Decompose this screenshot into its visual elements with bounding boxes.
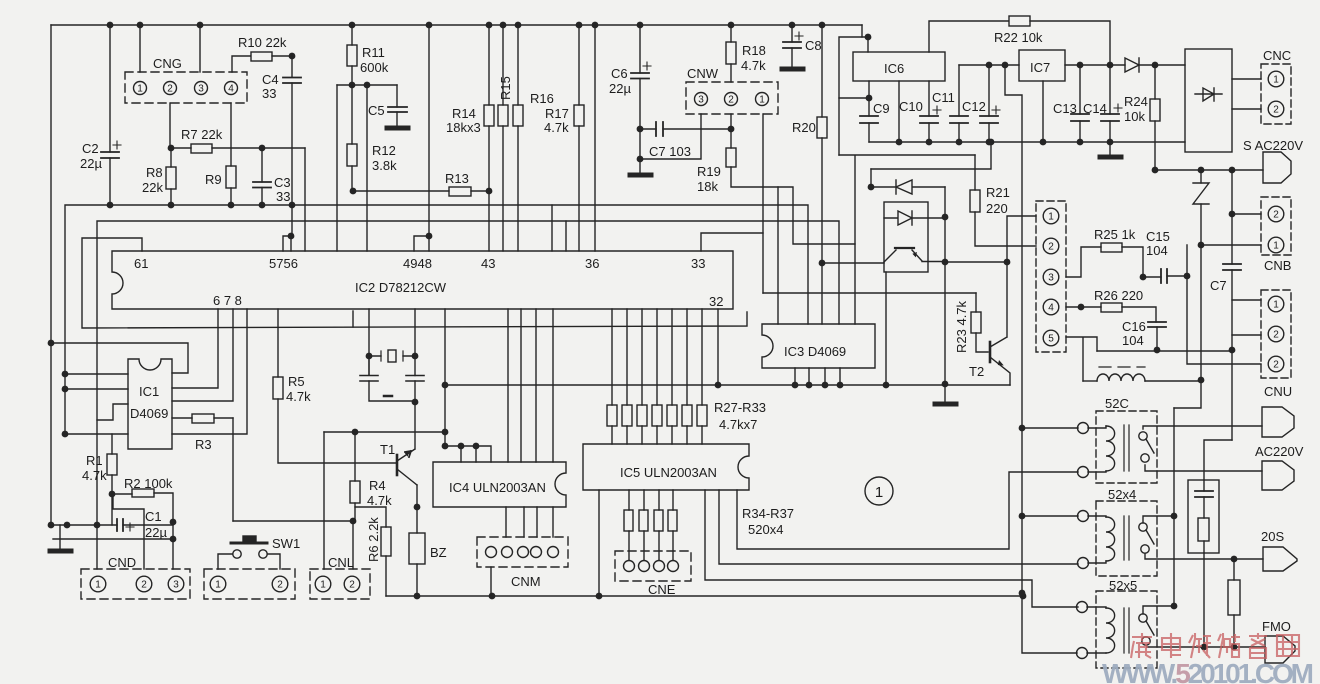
wire IC2 pins down to IC4 top row bbox=[444, 309, 446, 446]
resistor R18 bbox=[726, 25, 736, 82]
wire east control bus bbox=[445, 384, 1010, 386]
svg-text:SW1: SW1 bbox=[272, 536, 300, 551]
wire IC2 pin6 to IC1 bbox=[172, 309, 218, 388]
resistor R15 bbox=[498, 25, 508, 251]
svg-text:CNG: CNG bbox=[153, 56, 182, 71]
svg-text:1: 1 bbox=[215, 580, 221, 591]
relay 52x4 terminals bbox=[1078, 511, 1107, 569]
wire C4 column to pins 57 56 bbox=[291, 205, 293, 236]
resistor R16 bbox=[513, 25, 523, 251]
circled digit texts bbox=[95, 75, 1279, 591]
capacitor C5 bbox=[388, 85, 407, 126]
capacitor C2 bbox=[101, 25, 121, 205]
resistor R6 bbox=[355, 507, 391, 596]
svg-text:52C: 52C bbox=[1105, 396, 1129, 411]
wire IC2 pins 49 48 bbox=[414, 236, 429, 251]
connector below SW1 bbox=[204, 569, 295, 599]
wire relay contact column bbox=[1173, 408, 1175, 606]
wire bottom AC bus bbox=[1147, 646, 1265, 648]
svg-text:R17: R17 bbox=[545, 106, 569, 121]
wire 52x4 contact to column bbox=[1143, 516, 1174, 523]
connector FMO lug bbox=[1265, 636, 1295, 663]
wire IC2 pin61 wrap bbox=[82, 238, 747, 328]
svg-text:2: 2 bbox=[1273, 210, 1279, 221]
wire left border column bbox=[50, 25, 52, 525]
svg-text:C2: C2 bbox=[82, 141, 99, 156]
svg-text:R3: R3 bbox=[195, 437, 212, 452]
wire IC7 output line bbox=[1065, 64, 1125, 66]
wire module emitter line to T2 collector bbox=[945, 261, 1007, 263]
resistor R22 bbox=[929, 16, 1110, 65]
wire CNG pin4 down to R9 bbox=[230, 103, 232, 166]
resistor R26 bbox=[1066, 303, 1156, 322]
svg-text:1: 1 bbox=[875, 484, 883, 501]
svg-text:T2: T2 bbox=[969, 364, 984, 379]
svg-text:20S: 20S bbox=[1261, 529, 1284, 544]
wire left border to IC1 top right bbox=[51, 343, 188, 373]
wire CND pin2 line bbox=[53, 538, 173, 540]
resistor R23 bbox=[971, 293, 988, 352]
capacitor C1 bbox=[48, 519, 177, 543]
resistor R3 bbox=[172, 414, 233, 423]
wire bottom ground bus bbox=[386, 595, 1023, 597]
relay 52x5 terminals bbox=[1077, 602, 1107, 659]
svg-text:AC220V: AC220V bbox=[1255, 444, 1304, 459]
wire IC7 ground pin bbox=[1042, 81, 1044, 142]
svg-text:R14: R14 bbox=[452, 106, 476, 121]
svg-text:R26 220: R26 220 bbox=[1094, 288, 1143, 303]
svg-text:3: 3 bbox=[698, 95, 704, 106]
wire IC2 pin32 down bbox=[717, 309, 719, 385]
svg-text:4.7k: 4.7k bbox=[741, 58, 766, 73]
wire IC4 bottom pins to CNM bbox=[506, 507, 553, 537]
svg-text:3: 3 bbox=[198, 84, 204, 95]
resistor R10 bbox=[232, 52, 292, 72]
wire feed to 52C coil bbox=[1022, 427, 1078, 429]
rotated labels R15 R23 R6 bbox=[366, 76, 969, 562]
capacitor C16 bbox=[1148, 322, 1166, 353]
IC6 body bbox=[853, 52, 945, 81]
svg-text:2: 2 bbox=[1273, 330, 1279, 341]
wire zener to CNB pin1 bbox=[1201, 244, 1261, 246]
svg-text:22k: 22k bbox=[142, 180, 163, 195]
capacitor C11 bbox=[933, 65, 968, 142]
wire CNM pin1 down to ground bus bbox=[490, 567, 492, 596]
svg-text:3.8k: 3.8k bbox=[372, 158, 397, 173]
connector CNL bbox=[310, 569, 370, 599]
resistor R11 bbox=[347, 25, 357, 85]
buzzer BZ bbox=[409, 507, 425, 596]
svg-text:R21: R21 bbox=[986, 185, 1010, 200]
wire CNG pin3 to top bus bbox=[199, 25, 201, 72]
svg-text:4: 4 bbox=[1048, 303, 1054, 314]
wire header pin1 to T2 collector column bbox=[1007, 216, 1036, 262]
wire rectifier to CNC pin1 bbox=[1232, 78, 1261, 80]
wire caps ground rail bbox=[869, 141, 1185, 143]
wire IC3 extra top pin bbox=[777, 187, 779, 324]
resistor R25 bbox=[1066, 243, 1143, 277]
circled reference 1 bbox=[865, 477, 893, 505]
wire column x429 to top bus bbox=[428, 25, 430, 236]
svg-text:IC4 ULN2003AN: IC4 ULN2003AN bbox=[449, 480, 546, 495]
svg-text:18k: 18k bbox=[697, 179, 718, 194]
connector CNG bbox=[125, 72, 247, 103]
wire IC2 pin x552 to bus A bbox=[551, 205, 553, 251]
svg-text:C1: C1 bbox=[145, 509, 162, 524]
svg-text:6 7 8: 6 7 8 bbox=[213, 293, 242, 308]
connector CNE bbox=[615, 551, 691, 581]
svg-text:C8: C8 bbox=[805, 38, 822, 53]
svg-text:C13: C13 bbox=[1053, 101, 1077, 116]
wire 52C top contact to AC lug A bbox=[1143, 426, 1262, 429]
wire R11 bottom node bbox=[337, 84, 397, 86]
wire bus A ground rail bbox=[65, 205, 808, 434]
svg-text:36: 36 bbox=[585, 256, 599, 271]
wire R3 corner down to switch line bbox=[232, 418, 234, 521]
svg-text:CNW: CNW bbox=[687, 66, 719, 81]
inductor L1 bbox=[1083, 367, 1201, 381]
ground below C6 bbox=[630, 173, 651, 178]
svg-text:4: 4 bbox=[228, 84, 234, 95]
svg-text:520x4: 520x4 bbox=[748, 522, 783, 537]
svg-text:5: 5 bbox=[1048, 334, 1054, 345]
svg-text:4.7kx7: 4.7kx7 bbox=[719, 417, 757, 432]
wire IC2 pin33 route to R23 line bbox=[701, 233, 976, 293]
ground below C5 bbox=[387, 126, 408, 131]
svg-text:C5: C5 bbox=[368, 103, 385, 118]
wire CNW pin1 down to R23 line bbox=[762, 114, 764, 293]
resistor R14 bbox=[484, 25, 494, 251]
svg-text:IC3 D4069: IC3 D4069 bbox=[784, 344, 846, 359]
svg-text:1: 1 bbox=[759, 95, 765, 106]
svg-text:220: 220 bbox=[986, 201, 1008, 216]
svg-text:4.7k: 4.7k bbox=[544, 120, 569, 135]
connector CNU bbox=[1261, 290, 1291, 378]
wire module right column bbox=[944, 187, 946, 384]
crystal X1 with caps bbox=[360, 309, 424, 405]
relay 52C terminals bbox=[1078, 423, 1107, 478]
transistor in module bbox=[884, 248, 945, 262]
svg-text:C7: C7 bbox=[1210, 278, 1227, 293]
svg-text:C7 103: C7 103 bbox=[649, 144, 691, 159]
wire AC line to CNB pin2 bbox=[1232, 170, 1261, 214]
svg-text:1: 1 bbox=[1273, 241, 1279, 252]
wire pin4 net line bbox=[1097, 350, 1232, 352]
svg-text:33: 33 bbox=[691, 256, 705, 271]
svg-text:104: 104 bbox=[1122, 333, 1144, 348]
svg-text:R5: R5 bbox=[288, 374, 305, 389]
transistor T1 bbox=[397, 402, 420, 510]
wire IC1 left pin step bbox=[97, 404, 128, 420]
wire CNU pin2 middle branch bbox=[1232, 334, 1261, 336]
connector CND bbox=[81, 569, 190, 599]
svg-text:R4: R4 bbox=[369, 478, 386, 493]
wire IC5 stair to relay1 bbox=[737, 472, 1078, 549]
resistors R34-R37 bbox=[624, 490, 677, 560]
transistor T2 bbox=[990, 259, 1010, 385]
capacitor C15 bbox=[1140, 269, 1191, 283]
capacitor C12 bbox=[980, 65, 1000, 142]
wire switch line bbox=[233, 520, 353, 522]
svg-text:C6: C6 bbox=[611, 66, 628, 81]
svg-text:22µ: 22µ bbox=[145, 525, 167, 540]
wire IC2 pin7 to IC1 bbox=[172, 309, 233, 401]
svg-text:R10 22k: R10 22k bbox=[238, 35, 287, 50]
resistor R13 bbox=[350, 187, 493, 196]
resistor R4 bbox=[350, 432, 360, 521]
zener diode D1 in module bbox=[871, 180, 945, 194]
resistor R5 bbox=[273, 309, 397, 463]
resistor R9 bbox=[226, 166, 236, 205]
wire IC2 pin8 down bbox=[172, 309, 247, 434]
svg-text:1: 1 bbox=[1048, 212, 1054, 223]
svg-text:R24: R24 bbox=[1124, 94, 1148, 109]
svg-text:IC6: IC6 bbox=[884, 61, 904, 76]
connector AC220V lug A bbox=[1262, 407, 1294, 437]
capacitor C14 bbox=[1101, 65, 1122, 142]
wire header pin5 down bbox=[1066, 337, 1097, 381]
svg-text:600k: 600k bbox=[360, 60, 389, 75]
IC5 ULN2003AN body bbox=[583, 444, 749, 490]
svg-text:R34-R37: R34-R37 bbox=[742, 506, 794, 521]
capacitor C7b bbox=[1223, 214, 1261, 440]
svg-text:R9: R9 bbox=[205, 172, 222, 187]
wire IC3 bottom pins bbox=[795, 368, 840, 385]
svg-text:5756: 5756 bbox=[269, 256, 298, 271]
wire 52C bottom contact to AC lug B bbox=[1145, 465, 1262, 471]
svg-text:33: 33 bbox=[276, 189, 290, 204]
resistor R divider bbox=[1228, 559, 1240, 647]
resistor R8 bbox=[166, 148, 176, 205]
svg-text:C9: C9 bbox=[873, 101, 890, 116]
svg-text:4948: 4948 bbox=[403, 256, 432, 271]
svg-text:61: 61 bbox=[134, 256, 148, 271]
wire top bus right corner down bbox=[861, 25, 863, 37]
wire feed to 52x4 coil bbox=[1022, 515, 1078, 517]
diode D2 in module bbox=[884, 211, 945, 225]
svg-text:S AC220V: S AC220V bbox=[1243, 138, 1303, 153]
svg-text:R19: R19 bbox=[697, 164, 721, 179]
node dots on AC line bbox=[1198, 167, 1236, 174]
resistor R7 bbox=[168, 144, 305, 153]
svg-text:R8: R8 bbox=[146, 165, 163, 180]
svg-text:T1: T1 bbox=[380, 442, 395, 457]
wire IC6 top pin bbox=[867, 37, 869, 52]
svg-text:CNM: CNM bbox=[511, 574, 541, 589]
svg-text:C10: C10 bbox=[899, 99, 923, 114]
svg-text:IC2 D78212CW: IC2 D78212CW bbox=[355, 280, 447, 295]
svg-text:3: 3 bbox=[173, 580, 179, 591]
wire CNL pin1 long column bbox=[323, 432, 325, 569]
wire CNW pin3 down bbox=[640, 114, 701, 159]
svg-text:10k: 10k bbox=[1124, 109, 1145, 124]
svg-text:R2 100k: R2 100k bbox=[124, 476, 173, 491]
switch SW1 bbox=[218, 536, 280, 569]
ground left bottom bbox=[59, 525, 61, 550]
resistor R21 bbox=[970, 155, 1036, 246]
svg-text:R13: R13 bbox=[445, 171, 469, 186]
ground below C8 bbox=[782, 67, 803, 72]
optocoupler module box bbox=[884, 202, 928, 272]
capacitor C7 (103) horizontal bbox=[640, 122, 734, 136]
svg-text:R6 2.2k: R6 2.2k bbox=[366, 517, 381, 562]
diode D3 bbox=[1125, 58, 1185, 72]
wire module left pin to bus bbox=[885, 272, 887, 385]
wire IC5 left bottom pin to ground bus bbox=[598, 490, 600, 596]
wire IC2 pins 57 56 bbox=[283, 236, 291, 251]
wire C15 net column to CNU pin2b bbox=[1187, 245, 1261, 364]
wire column x367 down bbox=[366, 85, 368, 251]
svg-text:C11: C11 bbox=[932, 90, 955, 105]
svg-text:C16: C16 bbox=[1122, 319, 1146, 334]
svg-text:FMO: FMO bbox=[1262, 619, 1291, 634]
wire rectifier to CNC pin2 bbox=[1232, 108, 1261, 110]
capacitor C4 bbox=[283, 53, 301, 205]
svg-text:104: 104 bbox=[1146, 243, 1168, 258]
wire snubber to bottom bus bbox=[1203, 553, 1205, 647]
resistor R12 bbox=[347, 85, 357, 191]
wire x305 down to IC2 pin bbox=[304, 148, 306, 251]
wire snubber feed bbox=[1204, 440, 1232, 480]
relay 52x5 box bbox=[1096, 591, 1157, 668]
svg-text:BZ: BZ bbox=[430, 545, 447, 560]
connector AC220V top lug bbox=[1263, 152, 1291, 183]
wire IC5 stair to relay2 bbox=[719, 490, 1078, 564]
svg-text:WWW.520101.COM: WWW.520101.COM bbox=[1102, 658, 1314, 684]
svg-text:1: 1 bbox=[1273, 300, 1279, 311]
svg-text:1: 1 bbox=[137, 84, 143, 95]
svg-text:33: 33 bbox=[262, 86, 276, 101]
svg-text:R16: R16 bbox=[530, 91, 554, 106]
wire R21 feed line bbox=[839, 154, 975, 156]
resistor R17 bbox=[574, 25, 584, 251]
wire relay feed from IC7 input bbox=[1005, 65, 1022, 593]
capacitor C13 bbox=[1071, 65, 1089, 142]
wire IC2 pin columns to IC4 bbox=[508, 309, 553, 462]
connector CNC bbox=[1261, 64, 1291, 124]
wire IC2 pin x353 stub to wrap line bbox=[352, 311, 354, 327]
svg-text:R15: R15 bbox=[498, 76, 513, 100]
resistor R20 bbox=[817, 25, 827, 324]
capacitor C9 bbox=[839, 81, 878, 142]
wire IC4 top pin row bbox=[445, 446, 491, 462]
wire zener column down to inductor node bbox=[1200, 245, 1202, 380]
resistor R19 bbox=[726, 129, 855, 324]
resistors R27-R33 columns bbox=[607, 309, 707, 444]
svg-text:CND: CND bbox=[108, 555, 136, 570]
svg-text:CNU: CNU bbox=[1264, 384, 1292, 399]
svg-text:2: 2 bbox=[1048, 242, 1054, 253]
svg-text:2: 2 bbox=[141, 580, 147, 591]
wire CND pin1 up bbox=[96, 525, 98, 569]
svg-text:C15: C15 bbox=[1146, 229, 1170, 244]
svg-text:R23 4.7k: R23 4.7k bbox=[954, 300, 969, 353]
wire column pin36 to top bus bbox=[594, 25, 596, 251]
connector CNB bbox=[1261, 197, 1291, 255]
IC2 D78212CW body bbox=[112, 251, 733, 309]
svg-text:R20: R20 bbox=[792, 120, 816, 135]
svg-text:2: 2 bbox=[349, 580, 355, 591]
svg-text:D4069: D4069 bbox=[130, 406, 168, 421]
svg-text:R25 1k: R25 1k bbox=[1094, 227, 1136, 242]
wire 52x4 contact to 20S bbox=[1145, 554, 1263, 559]
svg-text:22µ: 22µ bbox=[80, 156, 102, 171]
svg-text:R12: R12 bbox=[372, 143, 396, 158]
wire CNG pin2 down to R7 node bbox=[169, 103, 171, 148]
resistor R1 bbox=[107, 434, 117, 525]
wire IC5 stair to relay3 bbox=[705, 490, 1078, 607]
wire AC line R24 to lug bbox=[1155, 169, 1263, 171]
svg-text:22µ: 22µ bbox=[609, 81, 631, 96]
connector 1-5 header bbox=[1036, 201, 1066, 352]
wire IC6 pin to ground rail bbox=[898, 81, 900, 142]
svg-text:4.7k: 4.7k bbox=[286, 389, 311, 404]
svg-text:IC1: IC1 bbox=[139, 384, 159, 399]
svg-text:C12: C12 bbox=[962, 99, 986, 114]
svg-text:R22 10k: R22 10k bbox=[994, 30, 1043, 45]
svg-text:CNE: CNE bbox=[648, 582, 676, 597]
IC4 ULN2003AN body bbox=[433, 462, 566, 507]
wire CND pin3 column bbox=[172, 522, 174, 569]
svg-text:4.7k: 4.7k bbox=[367, 493, 392, 508]
resistor R2 bbox=[112, 489, 173, 522]
svg-text:R1: R1 bbox=[86, 453, 103, 468]
wire CND pin2 up to R1/R2 node bbox=[113, 495, 144, 569]
rectifier/triac block bbox=[1185, 49, 1232, 152]
connector CNW bbox=[686, 82, 778, 114]
connector AC220V lug B bbox=[1262, 461, 1294, 490]
svg-text:43: 43 bbox=[481, 256, 495, 271]
snubber network box bbox=[1188, 480, 1219, 553]
connector CNM bbox=[477, 537, 568, 567]
svg-text:C14: C14 bbox=[1083, 101, 1107, 116]
ground below C14 bbox=[1109, 142, 1111, 156]
svg-text:IC5 ULN2003AN: IC5 ULN2003AN bbox=[620, 465, 717, 480]
wire top supply bus bbox=[51, 24, 862, 26]
svg-text:1: 1 bbox=[95, 580, 101, 591]
wire IC2 pin x566 to bus B bbox=[565, 221, 567, 251]
IC7 body bbox=[1019, 50, 1065, 81]
svg-text:R18: R18 bbox=[742, 43, 766, 58]
svg-text:1: 1 bbox=[1273, 75, 1279, 86]
wire column x337 down to IC2 bbox=[336, 85, 338, 251]
svg-text:CNB: CNB bbox=[1264, 258, 1291, 273]
wire CNL pin2 up bbox=[352, 521, 354, 569]
svg-text:52x4: 52x4 bbox=[1108, 487, 1136, 502]
connector 20S lug bbox=[1263, 547, 1297, 571]
node junction dots on top bus bbox=[107, 22, 826, 29]
svg-text:R7 22k: R7 22k bbox=[181, 127, 223, 142]
wire R20 node to module bbox=[822, 262, 884, 264]
IC1 D4069 body bbox=[128, 359, 172, 449]
resistor R24 bbox=[1150, 65, 1160, 173]
wire bus B bbox=[97, 221, 839, 525]
wire feed to 52x5 lower terminal bbox=[1022, 593, 1077, 653]
wire IC6 feed from top corner bbox=[839, 37, 868, 155]
svg-text:52x5: 52x5 bbox=[1109, 578, 1137, 593]
capacitor C3 bbox=[253, 148, 271, 205]
svg-text:IC7: IC7 bbox=[1030, 60, 1050, 75]
wire bus A left column into IC1 bbox=[62, 371, 128, 438]
svg-text:4.7k: 4.7k bbox=[82, 468, 107, 483]
svg-text:1: 1 bbox=[320, 580, 326, 591]
wire collector line y432 bbox=[324, 431, 445, 433]
svg-text:2: 2 bbox=[1273, 105, 1279, 116]
svg-text:CNC: CNC bbox=[1263, 48, 1291, 63]
capacitor C6 bbox=[631, 25, 651, 175]
svg-text:3: 3 bbox=[1048, 273, 1054, 284]
wire CNG pin1 to top bus bbox=[139, 25, 141, 72]
